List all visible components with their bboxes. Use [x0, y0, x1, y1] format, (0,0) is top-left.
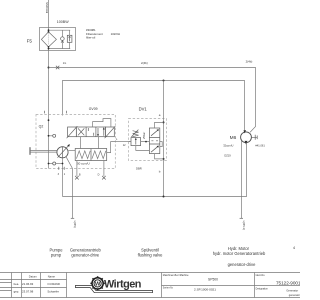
node junction filter line / pressure line: [48, 67, 50, 69]
plugged port B: [75, 161, 81, 180]
svg-text:32ccm/U: 32ccm/U: [223, 143, 233, 147]
svg-text:Maschinen-Bez./Machine: Maschinen-Bez./Machine: [163, 275, 190, 277]
wire bypass line from top into filter and down to pump block: [48, 0, 50, 169]
wire DV1 port line: [129, 141, 150, 143]
node junction DV1 riser: [163, 80, 165, 82]
relief valve in filter block: [67, 30, 72, 48]
wire port L to DV1: [115, 141, 131, 143]
wire relief drain: [136, 146, 150, 151]
plugged port D: [98, 161, 106, 180]
node DV1 bottom: [163, 158, 165, 160]
svg-text:2(4b): 2(4b): [246, 59, 253, 63]
filter F5 enclosure box: [40, 28, 76, 51]
wire motor case drain: [241, 141, 243, 219]
svg-text:2.SP.1000-0021: 2.SP.1000-0021: [194, 288, 216, 292]
svg-text:Generator: Generator: [286, 288, 298, 292]
pump Q2 variable displacement: [57, 144, 70, 158]
check valve in filter bypass: [61, 30, 65, 48]
wire prop valve to flushing valve a: [80, 137, 82, 149]
svg-text:hydr. motor Generatorantrieb: hydr. motor Generatorantrieb: [213, 251, 266, 256]
wire internal branch bottom: [49, 48, 71, 50]
node DV1 top: [163, 121, 165, 123]
suction flange: [29, 147, 31, 155]
wire pump to flushing valve: [69, 150, 76, 152]
wire pilot loop above valve: [93, 119, 111, 127]
svg-text:102/0H: 102/0H: [111, 32, 120, 36]
relief valve DBR: [131, 130, 141, 146]
svg-text:Schaefer: Schaefer: [47, 289, 59, 293]
node return / DV1 drain: [163, 196, 165, 198]
wire motor return line: [63, 143, 247, 197]
wire internal branch top: [49, 29, 71, 31]
wire flushing valve to port L: [107, 142, 116, 153]
gauge port stub 2: [48, 162, 64, 165]
port tick 2: [66, 111, 68, 114]
svg-text:75122-9001: 75122-9001: [276, 280, 300, 285]
wire pump case drain diagonal: [66, 157, 72, 168]
svg-text:gep.: gep.: [14, 289, 20, 293]
node on filter line: [48, 119, 50, 121]
flushing valve body: [75, 149, 107, 161]
svg-text:L(MS.1): L(MS.1): [242, 221, 246, 230]
svg-text:Serien-Nr.: Serien-Nr.: [163, 286, 174, 289]
svg-text:generator-drive: generator-drive: [228, 262, 256, 267]
port tick 1 with label: [63, 167, 65, 170]
svg-text:Datum: Datum: [29, 275, 38, 279]
svg-text:25bar: 25bar: [142, 132, 146, 139]
wire suction double line: [31, 151, 58, 153]
svg-text:bea.: bea.: [14, 282, 20, 286]
svg-text:21.06.93: 21.06.93: [22, 282, 34, 286]
svg-text:Designation: Designation: [256, 287, 269, 290]
svg-text:D: D: [98, 173, 100, 176]
node relief to valve: [145, 141, 147, 143]
wire block leak line: [72, 169, 74, 219]
gauge port stub 1: [48, 134, 56, 137]
port tick 1: [43, 111, 45, 114]
valve block DV1 dashed enclosure: [129, 119, 167, 161]
wire prop valve to flushing valve b: [98, 137, 100, 149]
Wirtgen logo gear: [90, 276, 104, 290]
valve block GV09 dashed enclosure: [36, 115, 115, 169]
svg-text:O.FRANK: O.FRANK: [47, 282, 60, 286]
wire top pressure line to motor: [49, 68, 256, 133]
wire working line pump to motor: [63, 81, 245, 131]
svg-text:23.07.98: 23.07.98: [22, 289, 34, 293]
motor M6: [241, 130, 252, 144]
svg-text:Ident-No.: Ident-No.: [256, 274, 266, 277]
svg-text:Name: Name: [48, 275, 56, 279]
svg-text:generator-drive: generator-drive: [71, 252, 99, 257]
svg-text:DV1: DV1: [139, 107, 148, 112]
svg-text:SP500: SP500: [208, 277, 218, 281]
svg-text:generator: generator: [289, 293, 300, 297]
svg-text:1m: 1m: [63, 62, 66, 65]
flange case drain: [240, 217, 243, 219]
svg-text:DBR: DBR: [136, 166, 142, 170]
title block frame: [0, 273, 300, 298]
svg-text:W: W: [95, 282, 101, 288]
solenoid left proportional: [67, 126, 78, 138]
wire valve right notch: [160, 142, 162, 147]
svg-text:100BW: 100BW: [57, 20, 69, 24]
svg-text:L(MS): L(MS): [73, 221, 77, 228]
solenoid right proportional: [105, 126, 116, 138]
wire DV1 riser a-b: [163, 81, 165, 197]
svg-text:Q2: Q2: [39, 124, 44, 128]
filter element symbol: [41, 31, 56, 48]
wire pump drain down: [62, 158, 64, 197]
svg-text:GV09: GV09: [89, 107, 98, 111]
svg-text:F5: F5: [27, 39, 33, 44]
shaft of motor: [251, 135, 257, 140]
svg-text:filter-oil: filter-oil: [86, 36, 96, 40]
svg-text:Wirtgen: Wirtgen: [104, 279, 141, 291]
svg-text:flushing valve: flushing valve: [138, 252, 164, 257]
svg-text:M6: M6: [230, 135, 237, 141]
proportional valve body: [76, 127, 105, 137]
svg-text:pump: pump: [51, 252, 62, 257]
node branch bottom: [48, 48, 50, 50]
svg-text:4: 4: [293, 246, 295, 250]
wire valve bottom connector: [155, 154, 164, 159]
Wirtgen logo swoosh: [76, 285, 153, 292]
flange leak line: [71, 217, 74, 219]
node branch top: [48, 29, 50, 31]
hose coupling X mark: [56, 66, 59, 69]
wire valve top connector: [155, 122, 164, 128]
directional valve DV1 column: [149, 128, 159, 154]
svg-text:50 ccm/U: 50 ccm/U: [77, 162, 90, 166]
svg-text:BYPASS: BYPASS: [45, 2, 49, 13]
svg-text:DZ19: DZ19: [224, 154, 231, 158]
svg-text:#41.061: #41.061: [255, 143, 265, 147]
svg-text:2(4b): 2(4b): [141, 61, 148, 65]
port tick 3 with label: [58, 167, 60, 170]
